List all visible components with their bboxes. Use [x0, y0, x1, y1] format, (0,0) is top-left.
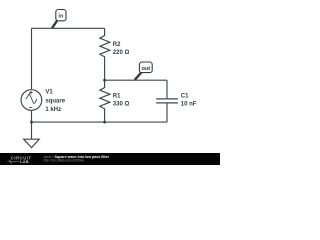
svg-text:V1: V1 [45, 90, 53, 96]
svg-text:square: square [45, 98, 65, 104]
svg-text:330 Ω: 330 Ω [113, 102, 130, 108]
svg-text:C1: C1 [181, 94, 189, 100]
svg-text:1 kHz: 1 kHz [45, 107, 61, 113]
svg-text:in: in [58, 13, 64, 19]
svg-text:R2: R2 [113, 42, 121, 48]
svg-text:10 nF: 10 nF [181, 102, 197, 108]
svg-text:LAB: LAB [20, 160, 29, 164]
svg-text:http://circuitlab.com/c/3t5kw: http://circuitlab.com/c/3t5kw [44, 159, 85, 163]
svg-text:220 Ω: 220 Ω [113, 50, 130, 56]
svg-text:R1: R1 [113, 94, 121, 100]
svg-text:out: out [141, 66, 150, 72]
